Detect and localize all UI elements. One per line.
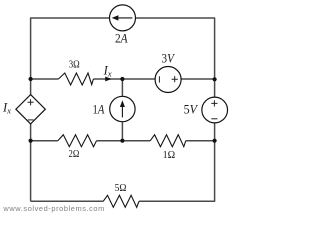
current source 2A (circle with left arrow, in top wire) — [110, 5, 136, 31]
3V plus sign — [172, 76, 178, 82]
svg-text:5V: 5V — [184, 103, 199, 117]
node E junction dot — [120, 139, 124, 143]
node C junction dot — [213, 77, 217, 81]
voltage source 5V (circle, plus top minus bottom) — [202, 97, 228, 123]
wire: node B down to 1A source top — [121, 79, 123, 97]
svg-text:2A: 2A — [115, 32, 128, 46]
node D junction dot — [29, 139, 33, 143]
wire: 3V source to right rail node C — [181, 78, 214, 80]
dependent voltage source Ix (diamond, plus top minus bottom) — [16, 95, 45, 124]
wire: dependent source bottom to node D — [30, 124, 32, 141]
diamond minus sign — [28, 119, 34, 121]
5V plus sign — [211, 100, 217, 106]
resistor 5ohm — [103, 195, 139, 207]
node B junction dot — [120, 77, 124, 81]
svg-text:5Ω: 5Ω — [115, 182, 127, 194]
resistor 1ohm — [150, 135, 186, 147]
wire: 2ohm resistor to node E — [97, 140, 123, 142]
wire: top wire right segment — [136, 17, 216, 19]
svg-text:1A: 1A — [93, 102, 105, 116]
3V minus sign (rotated bar) — [158, 76, 160, 82]
wire: 1A source bottom to node E — [121, 122, 123, 141]
wire: right rail 5V bottom to node F — [214, 123, 216, 141]
5V minus sign — [211, 118, 217, 120]
svg-text:3V: 3V — [162, 52, 176, 66]
wire: node A down to dependent source top — [30, 79, 32, 95]
wire: right rail bottom (node F to bottom-right corner) — [214, 141, 216, 202]
node A junction dot — [29, 77, 33, 81]
wire: node B to 3V source — [122, 78, 155, 80]
voltage source 3V (circle, minus-bar left, plus right) — [155, 67, 181, 93]
wire: left rail bottom (node D to bottom-left corner) — [30, 141, 32, 202]
wire: node E to 1ohm resistor — [122, 140, 150, 142]
diamond plus sign — [28, 99, 34, 105]
wire: bottom wire left segment — [31, 200, 104, 202]
wire: left rail top (top-left corner down to node A) — [30, 18, 32, 79]
resistor 3ohm — [58, 73, 93, 85]
resistor 2ohm — [58, 135, 97, 147]
wire: 3ohm resistor to node B (carries Ix arrow) — [93, 78, 122, 80]
wire: right rail top (corner to node C / 5V top) — [214, 18, 216, 98]
current source 1A (circle with up arrow) — [110, 96, 135, 121]
wire: node D to 2ohm resistor — [31, 140, 58, 142]
current direction arrow Ix on wire — [105, 77, 111, 82]
node F junction dot — [213, 139, 217, 143]
svg-text:2Ω: 2Ω — [69, 148, 80, 160]
svg-text:3Ω: 3Ω — [69, 59, 80, 71]
svg-text:www.solved-problems.com: www.solved-problems.com — [2, 204, 104, 213]
wire: node A to 3ohm resistor — [31, 78, 59, 80]
svg-text:1Ω: 1Ω — [163, 149, 176, 161]
wire: bottom wire right segment — [139, 200, 215, 202]
wire: top wire left segment — [30, 17, 110, 19]
wire: 1ohm resistor to node F — [186, 140, 215, 142]
